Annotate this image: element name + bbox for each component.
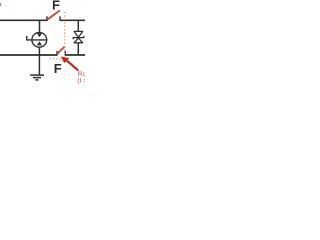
TVS bidirectional Zener diode lower triangle [74, 38, 83, 43]
fuse F1 blown-fuse red stroke [48, 11, 59, 19]
wire from arrester circle down through bottom rail to ground [38, 47, 40, 75]
svg-text:F: F [54, 61, 62, 76]
red dotted boundary line (vertical) [64, 12, 66, 56]
wire bottom rail right segment [65, 54, 85, 56]
surge arrester G1 lower arrowhead (pointing up) [37, 41, 42, 45]
fuse F2 blown-fuse red stroke [58, 47, 65, 53]
wire top rail left segment [0, 19, 47, 21]
wire branch from top rail to arrester circle [39, 20, 41, 33]
fuse F1 right contact tick [59, 16, 61, 21]
background [0, 0, 85, 85]
ground symbol [30, 75, 44, 80]
wire branch from top rail down to TVS diode [77, 20, 79, 31]
fuse F2 right contact tick [64, 51, 66, 56]
surge arrester G1 circle [32, 32, 47, 47]
fuse F1 left contact tick [46, 16, 48, 21]
surge arrester G1 bar end tick [26, 36, 28, 41]
red annotation arrow pointing at fuse F2 [61, 56, 78, 70]
fuse F2 left contact tick [56, 51, 58, 56]
svg-text:(I =: (I = [77, 78, 85, 85]
surge arrester G1 upper arrowhead (pointing down) [37, 33, 42, 37]
wire from TVS diode down to bottom rail [77, 43, 79, 55]
TVS bidirectional Zener diode center bar with hooks [73, 36, 84, 39]
surge arrester G1 center bar [27, 39, 48, 41]
wire top rail right segment [60, 19, 85, 21]
TVS bidirectional Zener diode upper triangle [74, 31, 83, 37]
red dotted boundary line (horizontal, below fuse F2) [49, 58, 63, 60]
svg-text:F: F [52, 0, 60, 13]
wire bottom rail left segment [0, 54, 57, 56]
stray red mark (cut off at left edge) [0, 3, 1, 6]
